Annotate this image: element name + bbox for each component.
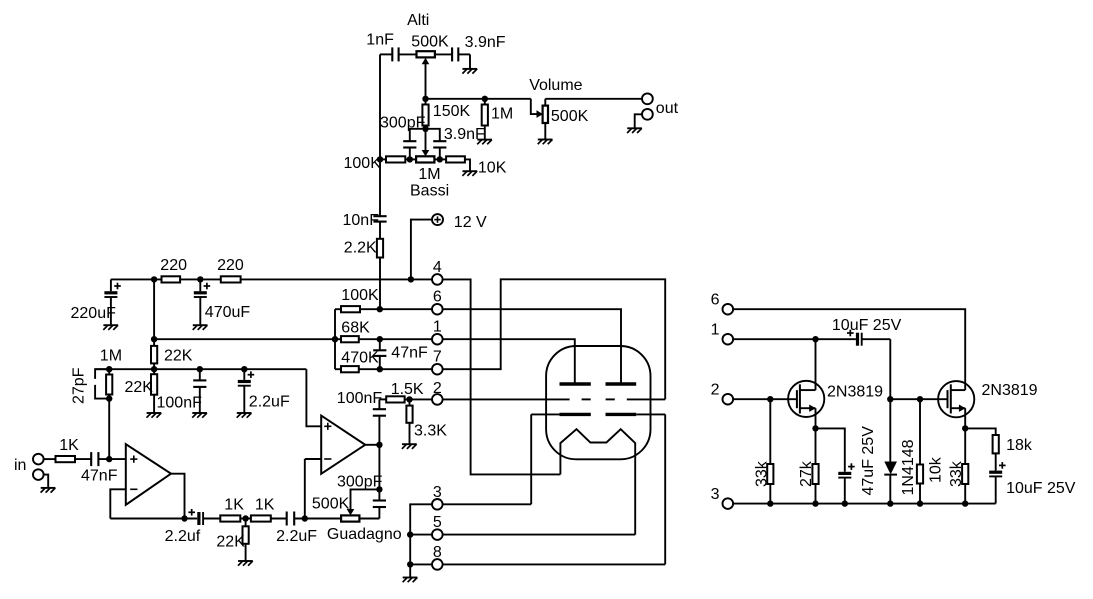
svg-text:2N3819: 2N3819	[827, 384, 883, 401]
svg-text:3: 3	[433, 484, 442, 501]
svg-text:22K: 22K	[164, 347, 193, 364]
svg-text:1K: 1K	[224, 497, 244, 514]
svg-text:1M: 1M	[418, 166, 440, 183]
svg-text:Guadagno: Guadagno	[327, 526, 402, 543]
svg-text:12 V: 12 V	[454, 214, 487, 231]
svg-text:2.2uf: 2.2uf	[165, 528, 201, 545]
svg-text:1.5K: 1.5K	[391, 381, 424, 398]
svg-text:100K: 100K	[344, 155, 382, 172]
svg-text:Bassi: Bassi	[410, 183, 449, 200]
svg-text:1K: 1K	[59, 437, 79, 454]
svg-text:10nF: 10nF	[343, 212, 380, 229]
svg-text:22K: 22K	[125, 379, 154, 396]
svg-text:3.9nF: 3.9nF	[465, 34, 506, 51]
svg-text:1N4148: 1N4148	[900, 439, 917, 495]
svg-text:33k: 33k	[754, 460, 771, 487]
svg-text:68K: 68K	[341, 320, 370, 337]
svg-text:2N3819: 2N3819	[982, 382, 1038, 399]
svg-text:500K: 500K	[411, 34, 449, 51]
svg-text:8: 8	[433, 544, 442, 561]
svg-text:22K: 22K	[216, 533, 245, 550]
svg-text:300pF: 300pF	[337, 473, 383, 490]
svg-text:Volume: Volume	[529, 77, 582, 94]
svg-text:3.9nF: 3.9nF	[444, 126, 485, 143]
svg-text:10k: 10k	[928, 456, 945, 483]
svg-text:10K: 10K	[478, 160, 507, 177]
svg-text:100nF: 100nF	[157, 395, 203, 412]
svg-text:1: 1	[711, 322, 720, 339]
svg-text:6: 6	[433, 289, 442, 306]
svg-text:470K: 470K	[341, 350, 379, 367]
svg-text:3: 3	[711, 486, 720, 503]
svg-text:47nF: 47nF	[81, 468, 118, 485]
svg-text:150K: 150K	[433, 103, 471, 120]
svg-text:47nF: 47nF	[391, 345, 428, 362]
svg-text:Alti: Alti	[407, 12, 429, 29]
svg-text:2.2uF: 2.2uF	[276, 528, 317, 545]
svg-text:500K: 500K	[312, 496, 350, 513]
svg-text:220uF: 220uF	[71, 305, 117, 322]
svg-text:100nF: 100nF	[337, 390, 383, 407]
svg-text:10uF 25V: 10uF 25V	[1006, 480, 1076, 497]
svg-text:10uF 25V: 10uF 25V	[832, 317, 902, 334]
svg-text:1K: 1K	[255, 497, 275, 514]
svg-text:1M: 1M	[491, 106, 513, 123]
svg-text:1nF: 1nF	[366, 31, 394, 48]
svg-text:5: 5	[433, 514, 442, 531]
svg-text:220: 220	[160, 257, 187, 274]
svg-text:47uF 25V: 47uF 25V	[860, 426, 877, 496]
svg-text:470uF: 470uF	[205, 304, 251, 321]
svg-text:27pF: 27pF	[71, 367, 88, 404]
svg-text:3.3K: 3.3K	[414, 423, 447, 440]
svg-text:2: 2	[711, 382, 720, 399]
svg-text:1M: 1M	[100, 347, 122, 364]
svg-text:6: 6	[711, 292, 720, 309]
svg-text:100K: 100K	[341, 287, 379, 304]
svg-text:220: 220	[217, 257, 244, 274]
svg-text:18k: 18k	[1006, 437, 1033, 454]
svg-text:33k: 33k	[948, 460, 965, 487]
svg-text:in: in	[14, 457, 26, 474]
svg-text:2: 2	[433, 380, 442, 397]
svg-text:27k: 27k	[798, 460, 815, 487]
svg-text:500K: 500K	[551, 108, 589, 125]
svg-text:1: 1	[433, 319, 442, 336]
svg-text:7: 7	[433, 349, 442, 366]
svg-text:2.2uF: 2.2uF	[249, 393, 290, 410]
svg-text:4: 4	[433, 259, 442, 276]
svg-text:out: out	[656, 100, 679, 117]
svg-text:2.2K: 2.2K	[344, 240, 377, 257]
svg-text:300pF: 300pF	[380, 114, 426, 131]
